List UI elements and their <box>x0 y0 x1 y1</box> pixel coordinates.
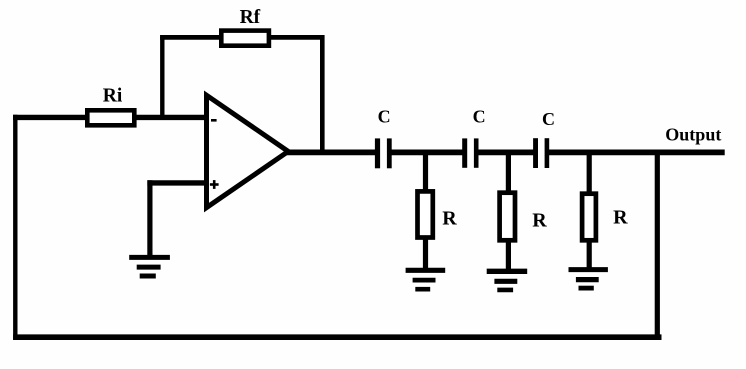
wire stem below resistor R3 <box>587 240 592 269</box>
svg-text:Output: Output <box>665 125 721 145</box>
resistor R1 <box>418 191 433 237</box>
wire stem above resistor R2 <box>506 152 511 193</box>
resistor R3 <box>582 194 596 241</box>
wire Rf loop top horizontal <box>160 35 324 40</box>
wire input horizontal from left rail to op-amp inverting input <box>13 115 206 120</box>
svg-text:C: C <box>378 107 391 127</box>
wire bottom feedback rail <box>13 334 661 340</box>
svg-text:Ri: Ri <box>103 86 123 107</box>
resistor Ri <box>87 110 134 125</box>
wire stem above resistor R1 <box>423 152 428 191</box>
wire Rf loop left vertical <box>160 35 164 120</box>
wire non-inverting input horizontal <box>147 180 206 185</box>
ground under R1 <box>406 270 446 289</box>
capacitor C1 <box>375 138 392 168</box>
ground under op-amp non-inverting input <box>129 257 170 276</box>
wire ground stem under non-inverting input <box>147 180 152 256</box>
wire stem above resistor R3 <box>587 152 592 194</box>
svg-text:R: R <box>442 207 457 229</box>
wire left rail vertical <box>13 115 17 340</box>
svg-text:R: R <box>613 207 628 229</box>
op-amp minus sign <box>211 119 217 122</box>
svg-text:C: C <box>473 107 486 127</box>
wire output horizontal from op-amp apex to right end <box>286 150 725 156</box>
op-amp plus sign <box>210 183 219 186</box>
wire stem below resistor R2 <box>506 240 511 271</box>
resistor R2 <box>500 193 515 241</box>
svg-text:R: R <box>532 210 547 232</box>
svg-text:Rf: Rf <box>240 7 261 28</box>
wire right feedback vertical from output line to bottom rail <box>655 152 660 339</box>
svg-text:C: C <box>542 109 555 129</box>
ground under R3 <box>569 270 608 289</box>
ground under R2 <box>487 271 528 290</box>
wire stem below resistor R1 <box>423 238 428 269</box>
capacitor C2 <box>462 138 478 167</box>
wire Rf loop right vertical down to output node <box>320 35 325 154</box>
capacitor C3 <box>533 138 549 168</box>
resistor Rf <box>221 31 269 46</box>
op-amp U1 <box>207 95 289 207</box>
